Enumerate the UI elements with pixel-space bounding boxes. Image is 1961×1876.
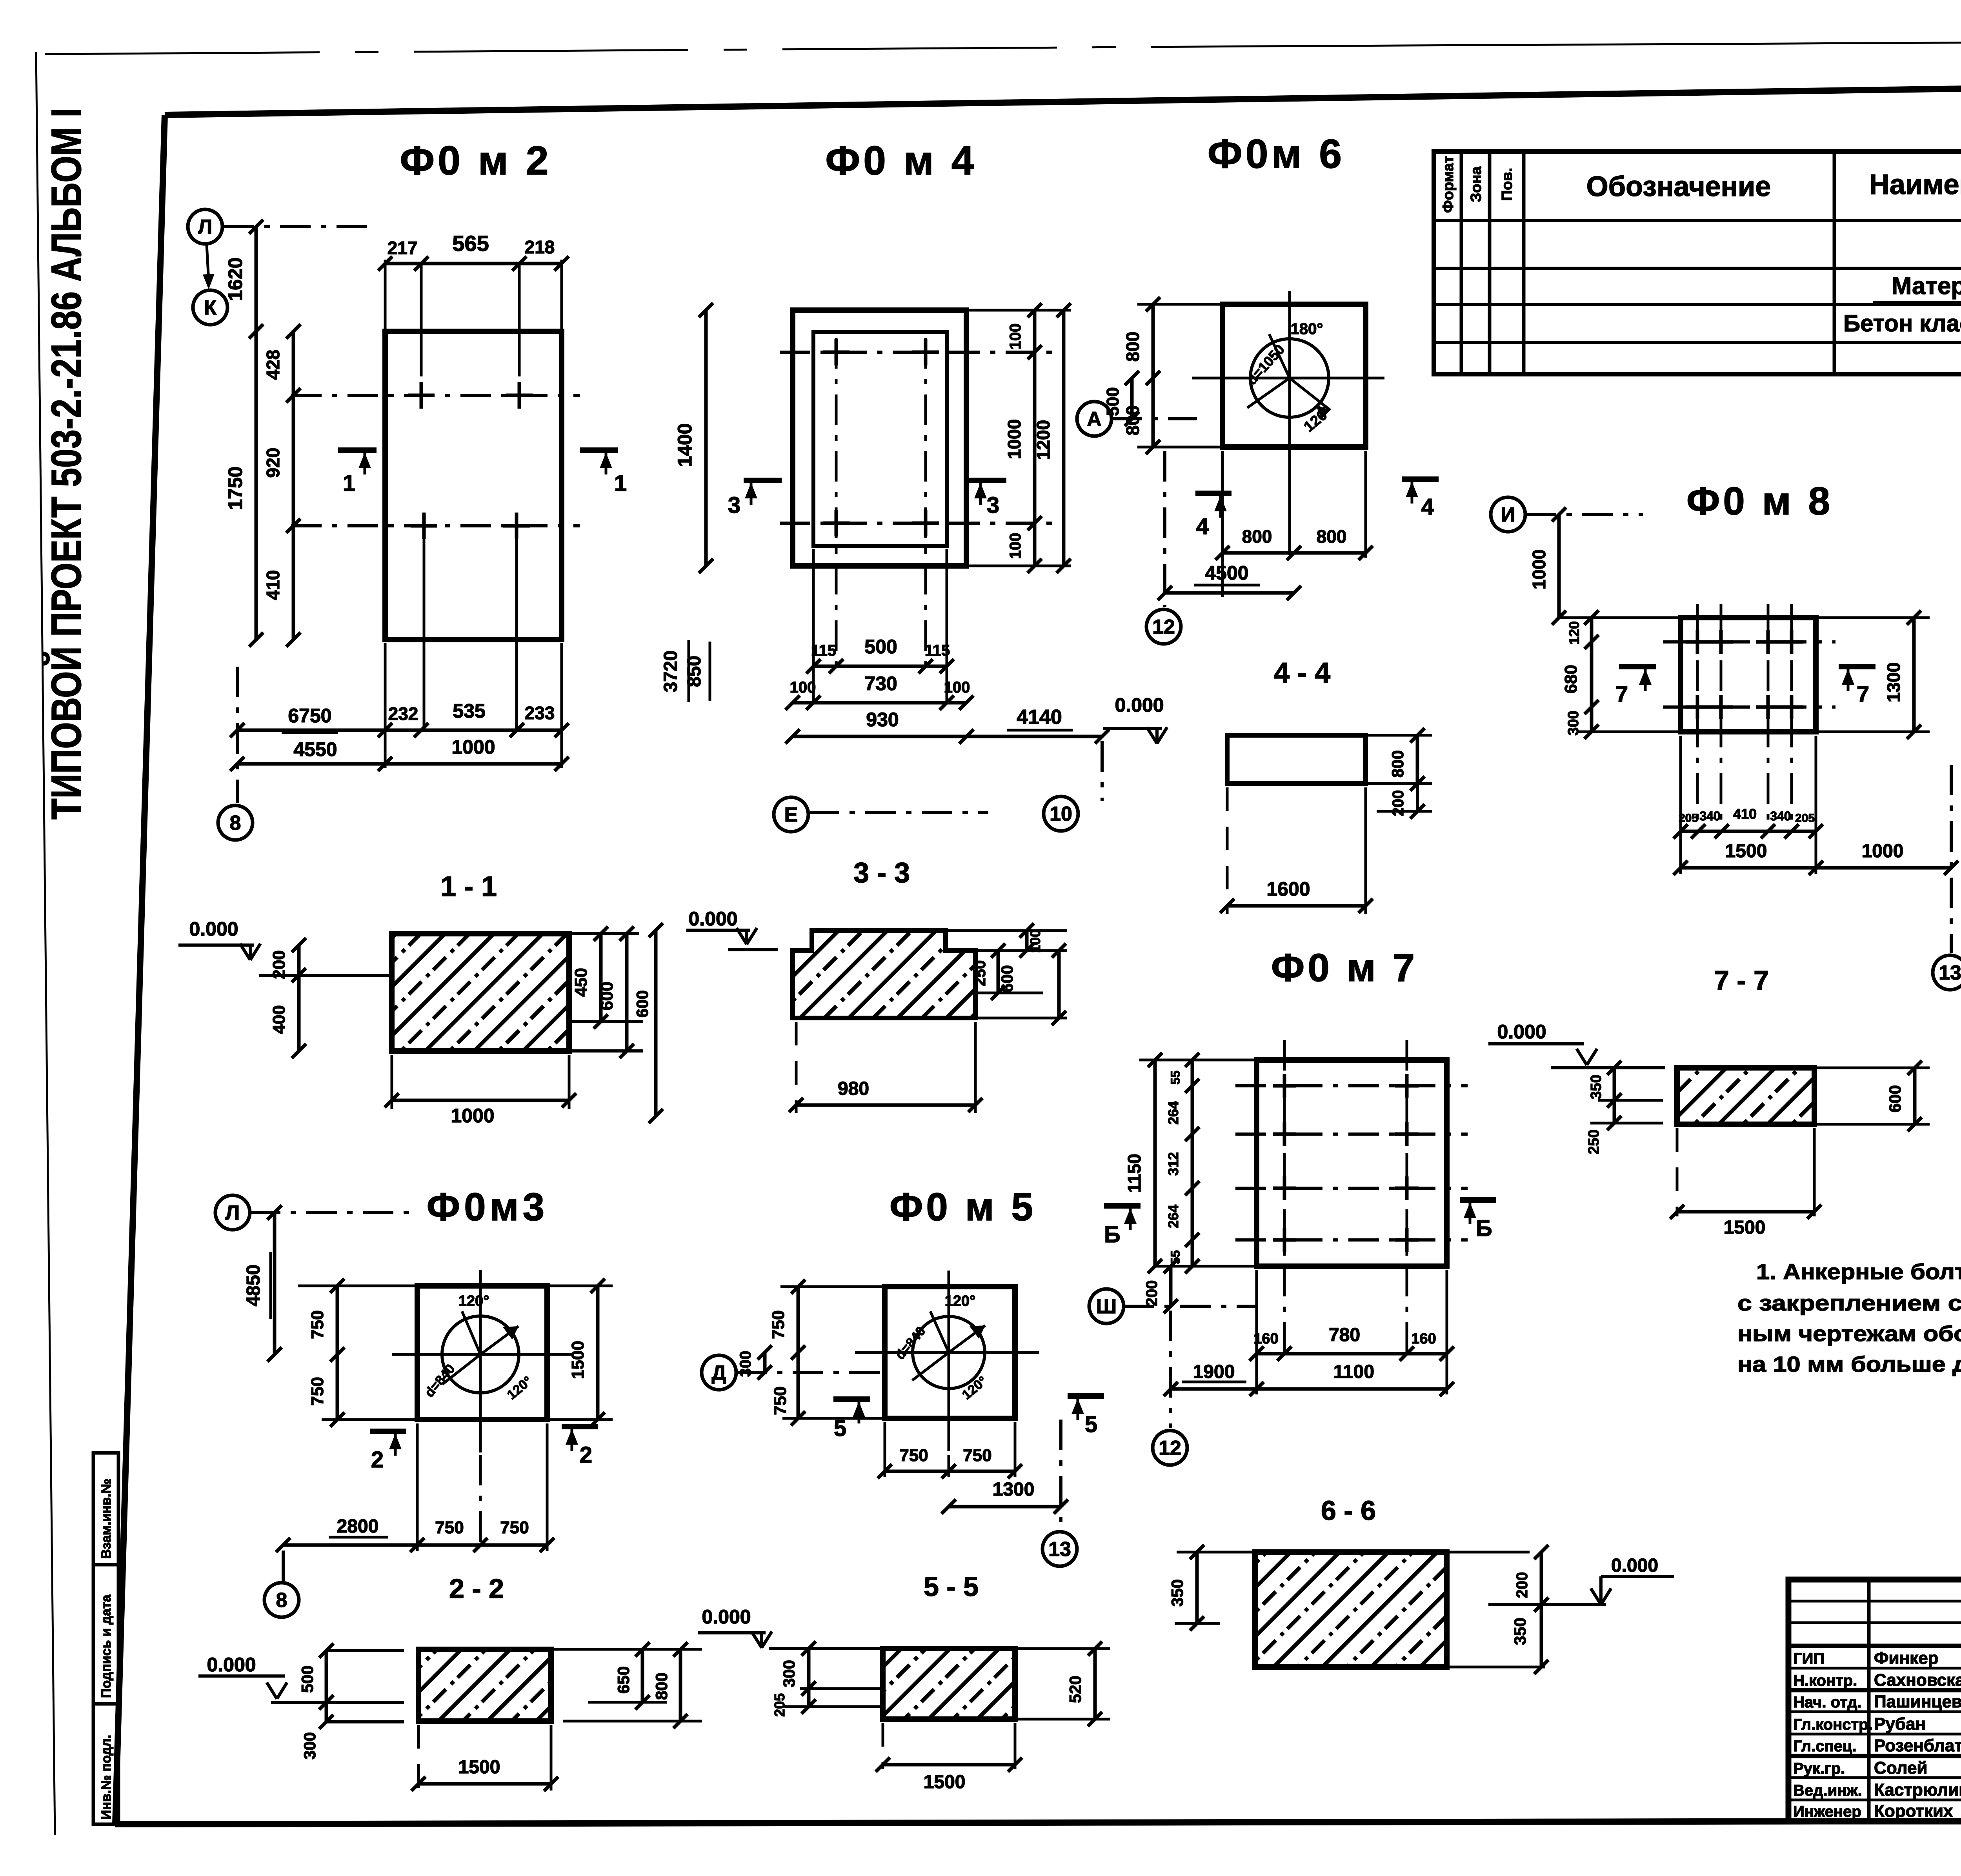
FOm2 dim line 428/920/410 bbox=[292, 331, 295, 640]
section mark 4 left bbox=[1195, 491, 1232, 496]
svg-text:730: 730 bbox=[864, 673, 897, 694]
svg-text:1500: 1500 bbox=[458, 1757, 500, 1778]
svg-text:200: 200 bbox=[1143, 1280, 1161, 1307]
svg-text:0.000: 0.000 bbox=[1115, 694, 1164, 716]
section 4-4 footing rectangle bbox=[1227, 735, 1366, 783]
title block row line 4422 bbox=[1788, 1733, 1961, 1736]
svg-text:Д: Д bbox=[711, 1362, 726, 1384]
FOm6 footing rectangle bbox=[1222, 304, 1366, 447]
svg-text:Вед.инж.: Вед.инж. bbox=[1793, 1782, 1862, 1799]
section 1-1 guide lines bbox=[259, 974, 389, 977]
svg-text:ТИПОВОЙ ПРОЕКТ 503-2.-21.86 АЛ: ТИПОВОЙ ПРОЕКТ 503-2.-21.86 АЛЬБОМ I bbox=[42, 108, 90, 820]
section 4-4 right dims 800/200 bbox=[1367, 734, 1432, 737]
axis circle Л bbox=[188, 209, 222, 244]
svg-text:Инженер: Инженер bbox=[1793, 1803, 1861, 1820]
svg-text:Л: Л bbox=[198, 216, 213, 238]
svg-text:500: 500 bbox=[1103, 387, 1122, 416]
svg-text:Гл.спец.: Гл.спец. bbox=[1793, 1738, 1857, 1755]
axis Е dash line bbox=[809, 811, 988, 814]
svg-text:3: 3 bbox=[987, 493, 999, 518]
FOm2 extension lines bbox=[384, 260, 387, 329]
section 7-7 hatched footing bbox=[1677, 1068, 1814, 1124]
FOm4 bolt verticals bbox=[835, 338, 838, 674]
svg-text:1300: 1300 bbox=[993, 1479, 1035, 1500]
svg-text:100: 100 bbox=[1007, 533, 1024, 559]
svg-text:410: 410 bbox=[263, 570, 283, 600]
svg-text:600: 600 bbox=[1886, 1085, 1904, 1113]
FOm5 footing rectangle bbox=[885, 1287, 1015, 1418]
axis 12 dash line bbox=[1163, 451, 1166, 607]
section 2-2 guide lines bbox=[326, 1649, 404, 1652]
svg-text:535: 535 bbox=[453, 700, 485, 722]
svg-text:450: 450 bbox=[571, 968, 591, 996]
svg-text:Взам.инв.№: Взам.инв.№ bbox=[99, 1479, 114, 1559]
svg-text:200: 200 bbox=[269, 950, 289, 979]
svg-text:Ф0 м 7: Ф0 м 7 bbox=[1271, 946, 1418, 990]
svg-text:Финкер: Финкер bbox=[1874, 1649, 1939, 1668]
svg-text:1900: 1900 bbox=[1193, 1362, 1235, 1382]
FOm7 bottom dim 160/780/160 bbox=[1255, 1270, 1258, 1394]
title block row line 4197 bbox=[1788, 1644, 1961, 1648]
svg-text:180°: 180° bbox=[1291, 320, 1323, 338]
svg-text:Розенблат: Розенблат bbox=[1874, 1736, 1961, 1755]
svg-text:0.000: 0.000 bbox=[1611, 1555, 1658, 1576]
section 7-7 left dims 350/250 bbox=[1613, 1068, 1616, 1123]
FOm5 left dim 750/750 bbox=[797, 1287, 800, 1418]
section 1-1 right dim 450/600 bbox=[599, 934, 603, 1022]
FOm6 bottom dim 800/800 bbox=[1221, 451, 1224, 597]
svg-text:800: 800 bbox=[1242, 526, 1272, 547]
svg-text:А: А bbox=[1087, 408, 1102, 431]
FOm5 bottom dim 1300 bbox=[949, 1505, 1061, 1509]
svg-text:340: 340 bbox=[1770, 809, 1791, 823]
FOm8 dim 1000 bbox=[1557, 514, 1561, 618]
svg-text:Ф0 м 5: Ф0 м 5 bbox=[890, 1185, 1036, 1229]
FOm6 vertical centerline bbox=[1288, 291, 1291, 555]
svg-text:1000: 1000 bbox=[1529, 549, 1549, 589]
svg-text:Солей: Солей bbox=[1874, 1758, 1927, 1778]
FOm8 left dims 120/680/300 bbox=[1590, 618, 1594, 732]
svg-text:250: 250 bbox=[971, 960, 989, 987]
svg-text:160: 160 bbox=[1253, 1331, 1278, 1347]
section 2-2 hatched footing bbox=[418, 1649, 551, 1721]
svg-text:1200: 1200 bbox=[1033, 420, 1053, 460]
title block top rows bbox=[1788, 1600, 1961, 1603]
section mark 7 left bbox=[1619, 664, 1656, 669]
axis Ш dash line (FOm7) bbox=[1124, 1305, 1257, 1308]
FOm3 bolt circle bbox=[442, 1316, 519, 1393]
svg-text:12: 12 bbox=[1152, 616, 1175, 638]
FOm3 right dim 1500 bbox=[549, 1285, 613, 1287]
svg-text:Ф0м 6: Ф0м 6 bbox=[1208, 131, 1345, 177]
arrow Л to К bbox=[207, 245, 209, 281]
svg-text:4550: 4550 bbox=[293, 738, 337, 760]
section mark 3 left bbox=[744, 478, 782, 483]
svg-text:К: К bbox=[204, 296, 216, 319]
axis Д dash line bbox=[736, 1371, 886, 1374]
svg-text:Материалы: Материалы bbox=[1892, 273, 1961, 300]
svg-text:0.000: 0.000 bbox=[688, 908, 737, 930]
axis circle 13 (FOm8) bbox=[1933, 955, 1961, 990]
FOm4 bottom dim 100/730/100 bbox=[793, 701, 966, 705]
svg-text:12: 12 bbox=[1159, 1437, 1181, 1460]
svg-text:500: 500 bbox=[864, 636, 897, 658]
svg-text:264: 264 bbox=[1165, 1205, 1181, 1228]
svg-text:750: 750 bbox=[435, 1518, 464, 1537]
svg-text:1000: 1000 bbox=[451, 736, 495, 758]
section mark 3 right bbox=[969, 478, 1006, 483]
FOm2 bottom dim 1000/4550 bbox=[237, 762, 562, 766]
svg-text:Инв.№ подл.: Инв.№ подл. bbox=[99, 1735, 114, 1820]
section mark 7 right bbox=[1839, 664, 1876, 669]
FOm3 bottom dim 2800/750/750 bbox=[416, 1423, 419, 1551]
FOm6 bolt circle bbox=[1250, 339, 1329, 417]
svg-text:1620: 1620 bbox=[224, 257, 246, 301]
outer border left bbox=[36, 52, 55, 1835]
svg-text:Нач. отд.: Нач. отд. bbox=[1793, 1694, 1862, 1711]
svg-text:Подпись и дата: Подпись и дата bbox=[99, 1594, 114, 1698]
section 7-7 right dim 600 bbox=[1816, 1067, 1930, 1069]
svg-text:6750: 6750 bbox=[288, 705, 331, 727]
FOm6 horizontal centerline bbox=[1192, 377, 1384, 380]
svg-text:2 - 2: 2 - 2 bbox=[449, 1573, 504, 1604]
section mark 1 left bbox=[338, 447, 377, 453]
svg-text:13: 13 bbox=[1939, 962, 1961, 984]
svg-text:Кастрюлин: Кастрюлин bbox=[1874, 1780, 1961, 1800]
svg-text:115: 115 bbox=[811, 642, 837, 659]
section mark 4 right bbox=[1402, 476, 1439, 482]
FOm4 right dim 1200 bbox=[1062, 310, 1066, 566]
section mark 2 right bbox=[562, 1424, 598, 1429]
svg-text:400: 400 bbox=[269, 1005, 289, 1034]
svg-text:5 - 5: 5 - 5 bbox=[924, 1571, 979, 1602]
FOm6 dim 500 bbox=[1130, 378, 1134, 419]
svg-text:100: 100 bbox=[1027, 929, 1043, 953]
section 7-7 bottom dim 1500 bbox=[1676, 1128, 1679, 1216]
svg-text:1500: 1500 bbox=[924, 1772, 966, 1792]
svg-text:250: 250 bbox=[1586, 1129, 1602, 1154]
svg-text:750: 750 bbox=[899, 1446, 928, 1465]
section 6-6 hatched footing bbox=[1255, 1552, 1447, 1667]
section 5-5 hatched footing bbox=[883, 1649, 1015, 1719]
svg-text:с закреплением с помощью э: с закреплением с помощью эпоксидного кле… bbox=[1737, 1291, 1961, 1315]
section 5-5 bottom dim 1500 bbox=[882, 1723, 884, 1769]
svg-text:0.000: 0.000 bbox=[1497, 1021, 1546, 1043]
svg-text:780: 780 bbox=[1329, 1325, 1360, 1345]
svg-text:750: 750 bbox=[771, 1386, 790, 1415]
FOm7 bolt verticals bbox=[1283, 1040, 1286, 1354]
title block row line 4254 bbox=[1788, 1667, 1961, 1670]
FOm3 left dim 750/750 bbox=[336, 1286, 339, 1420]
svg-text:7: 7 bbox=[1615, 682, 1628, 707]
svg-text:Ф0 м 2: Ф0 м 2 bbox=[400, 138, 551, 184]
svg-text:Наименование: Наименование bbox=[1869, 169, 1961, 200]
section 2-2 bottom dim 1500 bbox=[417, 1725, 420, 1791]
svg-text:1100: 1100 bbox=[1333, 1362, 1374, 1382]
svg-text:5: 5 bbox=[834, 1416, 846, 1441]
axis 8 dash line (FOm3) bbox=[282, 1551, 285, 1582]
svg-text:565: 565 bbox=[452, 231, 489, 256]
axis circle 10 bbox=[1044, 796, 1078, 831]
svg-text:ным чертежам оборудования.: ным чертежам оборудования. Диаметр скваж… bbox=[1737, 1321, 1961, 1346]
section 1-1 hatched footing bbox=[392, 934, 569, 1051]
svg-text:1000: 1000 bbox=[1004, 419, 1024, 459]
svg-text:1: 1 bbox=[614, 471, 627, 496]
FOm5 bottom dim 750/750 bbox=[884, 1422, 886, 1477]
svg-text:Б: Б bbox=[1104, 1222, 1121, 1247]
axis 13 dash line (FOm8) bbox=[1950, 765, 1953, 953]
svg-text:920: 920 bbox=[263, 448, 283, 478]
FOm7 bottom dim 1900/1100 bbox=[1171, 1387, 1447, 1391]
FOm6 bottom dim 4500 bbox=[1165, 591, 1294, 595]
svg-text:300: 300 bbox=[300, 1732, 319, 1760]
svg-text:120°: 120° bbox=[458, 1293, 489, 1309]
FOm2 dim line 1620/1750 bbox=[255, 227, 258, 640]
svg-text:1600: 1600 bbox=[1266, 878, 1310, 900]
svg-text:300: 300 bbox=[780, 1660, 798, 1687]
svg-text:Обозначение: Обозначение bbox=[1586, 171, 1771, 202]
axis circle 12 (FOm7) bbox=[1153, 1431, 1187, 1465]
svg-text:7 - 7: 7 - 7 bbox=[1714, 965, 1769, 996]
section 7-7 level line bbox=[1551, 1066, 1665, 1069]
svg-text:500: 500 bbox=[298, 1665, 317, 1693]
svg-text:Н.контр.: Н.контр. bbox=[1793, 1672, 1857, 1689]
svg-text:1300: 1300 bbox=[1883, 662, 1904, 702]
svg-text:И: И bbox=[1501, 504, 1515, 526]
FOm3 bolt circle radii bbox=[462, 1311, 480, 1354]
svg-text:ГИП: ГИП bbox=[1793, 1650, 1825, 1667]
FOm5 bolt circle radii bbox=[930, 1311, 949, 1352]
svg-text:Коротких: Коротких bbox=[1874, 1801, 1953, 1821]
inner frame top (thick) bbox=[165, 79, 1961, 115]
title block thick line 4478 bbox=[1788, 1754, 1961, 1758]
FOm6 left dim 800/800 bbox=[1151, 304, 1155, 447]
FOm2 footing rectangle bbox=[385, 331, 562, 640]
svg-text:1500: 1500 bbox=[1724, 1217, 1766, 1238]
svg-text:Бетон класса В 12,5: Бетон класса В 12,5 bbox=[1843, 310, 1961, 336]
svg-text:750: 750 bbox=[769, 1310, 788, 1339]
svg-text:Ф0 м 4: Ф0 м 4 bbox=[825, 138, 977, 184]
FOm5 centerlines bbox=[948, 1271, 950, 1451]
svg-text:300: 300 bbox=[737, 1351, 754, 1377]
materials table grid bbox=[1434, 151, 1961, 374]
FOm8 bottom dim 1500/1000 bbox=[1681, 866, 1951, 870]
svg-text:2: 2 bbox=[580, 1442, 592, 1468]
FOm4 dim 1400 bbox=[704, 310, 708, 566]
section mark 1 right bbox=[580, 447, 618, 453]
svg-text:428: 428 bbox=[263, 350, 283, 380]
svg-text:Гл.констр.: Гл.констр. bbox=[1793, 1716, 1873, 1733]
inner frame bottom (thick) bbox=[115, 1820, 1961, 1824]
FOm8 bottom dim 205/340/410/340/205 bbox=[1679, 736, 1682, 874]
FOm4 right dims 100/1000/100 bbox=[1033, 310, 1037, 566]
svg-text:850: 850 bbox=[684, 656, 705, 687]
svg-text:Зона: Зона bbox=[1468, 166, 1484, 202]
section 1-1 bottom dim 1000 bbox=[391, 1055, 393, 1109]
svg-text:750: 750 bbox=[308, 1310, 327, 1339]
svg-text:0.000: 0.000 bbox=[702, 1606, 751, 1628]
svg-text:264: 264 bbox=[1165, 1101, 1181, 1125]
inner frame left (thick) bbox=[115, 115, 165, 1824]
outer border top (thin, broken) bbox=[45, 46, 1255, 54]
section mark 5 left bbox=[833, 1396, 870, 1402]
svg-text:2: 2 bbox=[371, 1447, 384, 1472]
svg-text:5: 5 bbox=[1085, 1412, 1097, 1437]
svg-text:Ф0 м 8: Ф0 м 8 bbox=[1686, 479, 1833, 523]
axis circle Л (FOm3) bbox=[215, 1195, 250, 1230]
section mark Б left bbox=[1104, 1203, 1141, 1209]
FOm2 bottom dim 232/535/233 bbox=[237, 729, 562, 732]
svg-text:1 - 1: 1 - 1 bbox=[440, 871, 497, 902]
FOm5 bolt circle bbox=[913, 1316, 985, 1389]
svg-text:Ф0м3: Ф0м3 bbox=[427, 1185, 549, 1229]
section mark Б right bbox=[1460, 1197, 1496, 1203]
svg-text:Б: Б bbox=[1476, 1216, 1492, 1241]
axis circle Ш (FOm7) bbox=[1089, 1289, 1124, 1323]
FOm3 centerlines bbox=[479, 1270, 482, 1452]
svg-text:233: 233 bbox=[525, 703, 555, 723]
svg-text:Рубан: Рубан bbox=[1874, 1714, 1926, 1734]
svg-text:8: 8 bbox=[276, 1589, 287, 1612]
title block row lines 4533 4590 bbox=[1788, 1776, 1961, 1779]
axis А dash line bbox=[1111, 417, 1197, 420]
section mark 2 left bbox=[370, 1429, 406, 1434]
FOm7 left dims 55/264/312/264/55 bbox=[1191, 1060, 1194, 1266]
svg-text:1150: 1150 bbox=[1124, 1154, 1144, 1193]
FOm8 right dim 1300 bbox=[1817, 616, 1930, 619]
section 6-6 left dim 350 bbox=[1175, 1622, 1220, 1625]
svg-text:750: 750 bbox=[500, 1518, 529, 1537]
svg-text:3 - 3: 3 - 3 bbox=[853, 857, 910, 889]
axis 10 dash line bbox=[1101, 741, 1104, 801]
svg-text:205: 205 bbox=[1795, 812, 1815, 825]
section 1-1 left dim 200/400 bbox=[297, 945, 301, 1051]
svg-text:218: 218 bbox=[525, 237, 555, 257]
FOm4 centerline upper bbox=[780, 351, 1059, 354]
axis circle А bbox=[1077, 402, 1111, 436]
svg-text:8: 8 bbox=[230, 812, 241, 834]
svg-text:100: 100 bbox=[790, 679, 816, 696]
svg-text:Е: Е bbox=[784, 803, 798, 826]
svg-text:115: 115 bbox=[925, 642, 950, 659]
FOm4 bottom dim 930 and 4140 bbox=[793, 735, 1102, 738]
svg-text:680: 680 bbox=[1561, 665, 1581, 693]
section 5-5 right dim 520 bbox=[1017, 1647, 1110, 1650]
axis dash line from Л bbox=[224, 225, 376, 228]
svg-text:205: 205 bbox=[771, 1693, 788, 1717]
svg-text:312: 312 bbox=[1165, 1152, 1181, 1176]
section 5-5 left dims 300/205 bbox=[807, 1649, 811, 1707]
svg-text:0.000: 0.000 bbox=[207, 1654, 256, 1676]
FOm2 centerline lower bbox=[291, 524, 580, 527]
svg-text:6 - 6: 6 - 6 bbox=[1321, 1495, 1376, 1526]
FOm8 centerlines bbox=[1663, 640, 1835, 644]
svg-text:1500: 1500 bbox=[1725, 841, 1767, 862]
svg-text:4: 4 bbox=[1196, 514, 1209, 539]
svg-text:2800: 2800 bbox=[337, 1516, 379, 1537]
title block frame bbox=[1788, 1580, 1961, 1821]
svg-text:980: 980 bbox=[838, 1078, 869, 1099]
svg-text:200: 200 bbox=[1513, 1572, 1531, 1598]
svg-text:1000: 1000 bbox=[451, 1105, 494, 1127]
section 6-6 right dims 200/350 bbox=[1448, 1551, 1530, 1554]
svg-text:7: 7 bbox=[1857, 682, 1869, 707]
svg-text:160: 160 bbox=[1411, 1331, 1436, 1347]
section 3-3 stepped hatched footing bbox=[793, 931, 975, 1018]
axis 13 dash line (FOm5) bbox=[1059, 1420, 1062, 1530]
FOm7 centerlines rows bbox=[1235, 1084, 1468, 1087]
axis circle 13 (FOm5) bbox=[1042, 1532, 1077, 1566]
FOm7 left dim 1150 bbox=[1153, 1060, 1157, 1266]
svg-text:1. Анкерные болты устанавли: 1. Анкерные болты устанавливать в просве… bbox=[1756, 1259, 1961, 1284]
svg-text:Сахновская: Сахновская bbox=[1874, 1671, 1961, 1690]
svg-text:на 10 мм больше диаметра а: на 10 мм больше диаметра анкерного болта… bbox=[1737, 1352, 1961, 1376]
section 3-3 left dim 600 bbox=[654, 930, 658, 1116]
svg-text:650: 650 bbox=[614, 1666, 633, 1694]
section 3-3 right dims 100/250/600 bbox=[948, 929, 1067, 932]
svg-text:3: 3 bbox=[728, 493, 740, 518]
axis circle 12 bbox=[1146, 609, 1181, 644]
FOm8 bolt verticals bbox=[1696, 604, 1699, 831]
section 4-4 bottom dim 1600 bbox=[1226, 787, 1229, 914]
FOm3 footing rectangle bbox=[417, 1286, 547, 1420]
svg-text:200: 200 bbox=[1390, 790, 1407, 816]
section 2-2 right dims 650/800 bbox=[553, 1648, 702, 1651]
svg-text:410: 410 bbox=[1733, 806, 1757, 822]
FOm7 footing rectangle bbox=[1257, 1060, 1447, 1266]
section 3-3 bottom dim 980 bbox=[795, 1022, 798, 1113]
svg-text:205: 205 bbox=[1679, 812, 1698, 825]
FOm4 centerline lower bbox=[780, 522, 1059, 525]
axis 8 dash line bbox=[236, 667, 239, 803]
axis Л dash line (FOm3) bbox=[250, 1211, 412, 1214]
svg-text:4500: 4500 bbox=[1205, 562, 1248, 584]
FOm8 footing rectangle bbox=[1681, 618, 1816, 732]
svg-text:750: 750 bbox=[963, 1446, 991, 1465]
svg-text:520: 520 bbox=[1066, 1676, 1084, 1703]
title block row line 4365 bbox=[1788, 1711, 1961, 1713]
svg-text:1000: 1000 bbox=[1862, 841, 1904, 862]
axis circle 8 (FOm3) bbox=[264, 1583, 299, 1617]
svg-text:600: 600 bbox=[998, 965, 1016, 993]
svg-text:350: 350 bbox=[1511, 1618, 1529, 1645]
section 2-2 left dims 500/300 bbox=[325, 1651, 328, 1722]
svg-text:10: 10 bbox=[1050, 803, 1072, 825]
axis circle И bbox=[1491, 497, 1525, 532]
svg-text:340: 340 bbox=[1699, 809, 1720, 823]
svg-text:930: 930 bbox=[866, 709, 899, 731]
svg-text:600: 600 bbox=[633, 990, 651, 1018]
title block thick line 4310 bbox=[1788, 1688, 1961, 1692]
FOm7 dim 200 bbox=[1169, 1266, 1173, 1306]
svg-text:350: 350 bbox=[1168, 1579, 1186, 1607]
svg-text:600: 600 bbox=[597, 982, 617, 1010]
svg-text:1500: 1500 bbox=[568, 1341, 588, 1379]
svg-text:1: 1 bbox=[343, 471, 355, 496]
svg-text:55: 55 bbox=[1168, 1071, 1182, 1085]
FOm4 bottom dim 115/500/115 bbox=[813, 665, 947, 668]
FOm2 centerline upper bbox=[291, 394, 580, 397]
svg-text:Л: Л bbox=[226, 1202, 240, 1224]
FOm3 dim 4850 bbox=[273, 1212, 277, 1354]
svg-text:13: 13 bbox=[1048, 1538, 1071, 1561]
axis circle 8 bbox=[218, 805, 253, 840]
FOm4 outer rectangle bbox=[793, 310, 966, 566]
axis circle Д bbox=[702, 1355, 736, 1390]
svg-text:800: 800 bbox=[1388, 750, 1407, 778]
svg-text:3720: 3720 bbox=[660, 651, 681, 693]
svg-text:Формат: Формат bbox=[1440, 156, 1457, 213]
